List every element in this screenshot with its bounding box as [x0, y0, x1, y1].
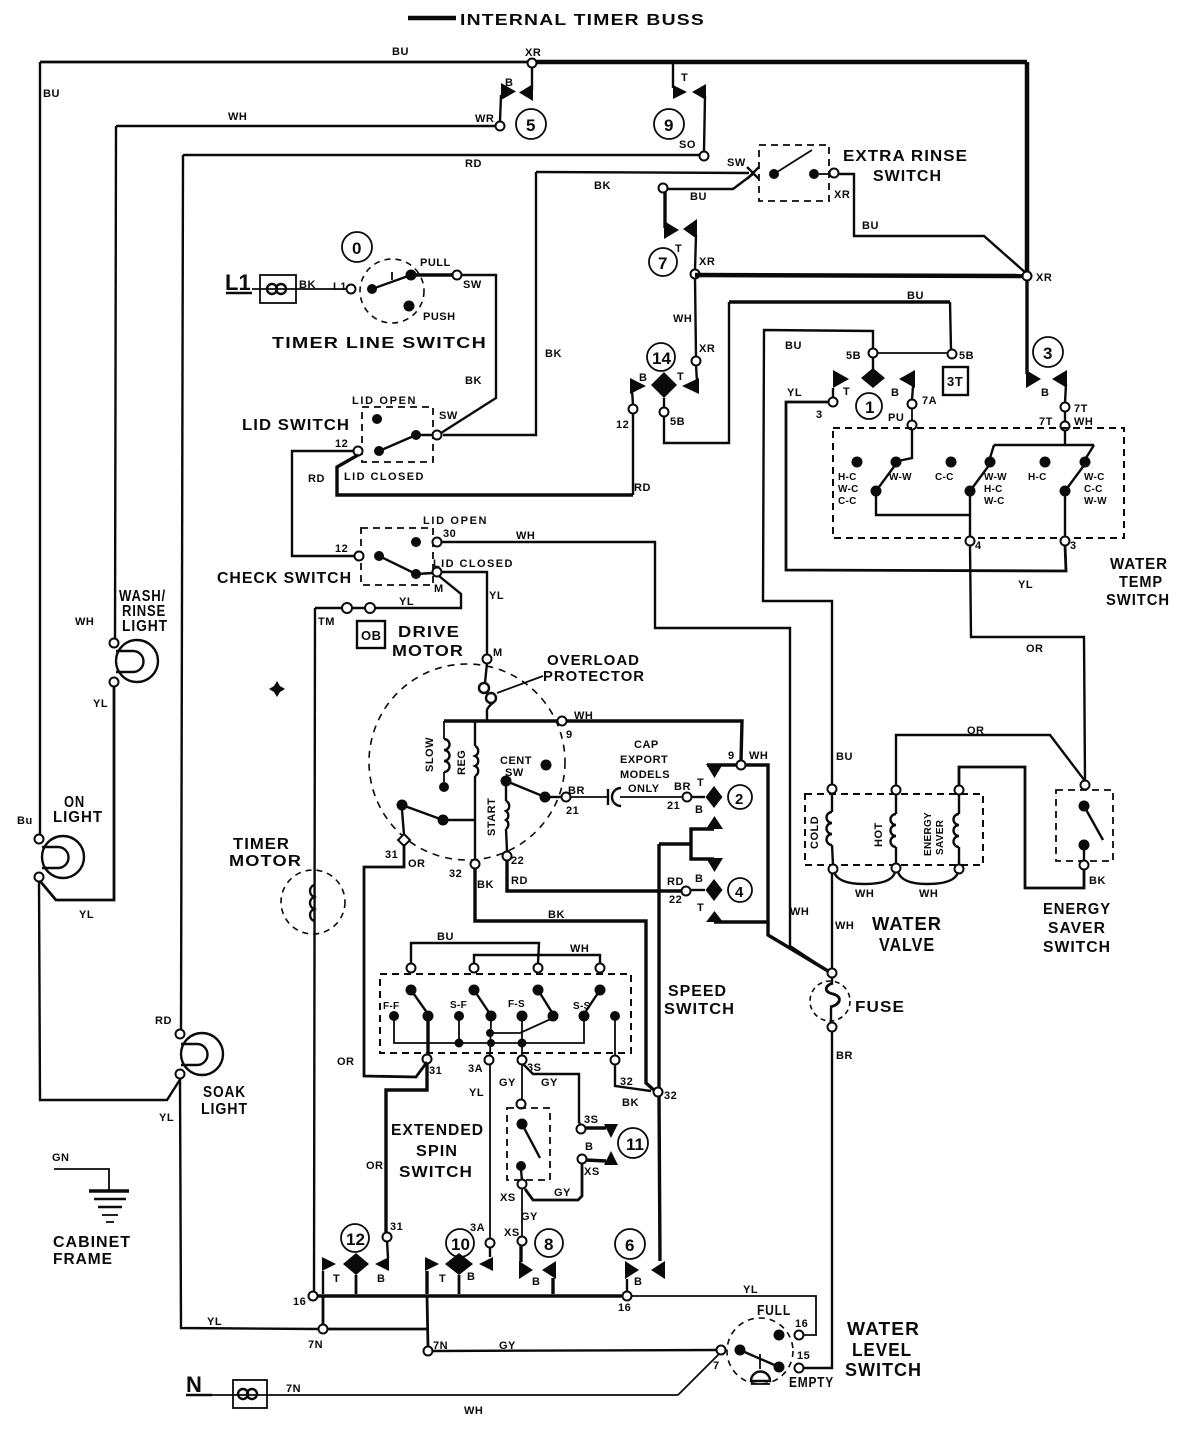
svg-text:RD: RD — [308, 473, 325, 485]
svg-text:BU: BU — [785, 340, 802, 352]
svg-text:WATER: WATER — [1110, 556, 1168, 573]
svg-text:HOT: HOT — [873, 822, 885, 847]
svg-text:TIMER: TIMER — [233, 836, 290, 853]
svg-text:CHECK SWITCH: CHECK SWITCH — [217, 570, 352, 587]
plug connector N — [233, 1380, 267, 1408]
node 32 speed — [611, 1056, 620, 1065]
svg-text:OR: OR — [366, 1160, 384, 1172]
svg-text:T: T — [677, 371, 684, 383]
svg-text:5: 5 — [526, 116, 535, 135]
svg-text:RD: RD — [667, 876, 684, 888]
wire timer motor line — [314, 608, 315, 1294]
svg-text:YL: YL — [399, 596, 414, 608]
wire BK branch to link — [659, 842, 691, 845]
svg-text:4: 4 — [975, 540, 982, 552]
svg-text:SWITCH: SWITCH — [845, 1360, 922, 1380]
svg-text:2: 2 — [735, 791, 743, 808]
svg-text:BK: BK — [465, 375, 482, 387]
svg-text:TIMER LINE SWITCH: TIMER LINE SWITCH — [272, 335, 487, 352]
speed switch pole terminals — [407, 964, 605, 973]
svg-text:EXPORT: EXPORT — [620, 754, 668, 766]
svg-text:MOTOR: MOTOR — [229, 853, 302, 870]
svg-text:B: B — [639, 372, 647, 384]
svg-text:Bu: Bu — [17, 815, 33, 827]
svg-text:YL: YL — [743, 1284, 758, 1296]
wire bottom bus — [314, 1294, 627, 1297]
svg-text:SPIN: SPIN — [416, 1143, 458, 1160]
svg-text:22: 22 — [511, 855, 524, 867]
node 7A — [908, 400, 917, 409]
svg-text:XR: XR — [699, 343, 715, 355]
svg-text:8: 8 — [544, 1235, 553, 1254]
wire BU outer left vertical — [39, 62, 41, 839]
svg-text:RD: RD — [465, 158, 482, 170]
wire BU bus to 5B right — [950, 302, 951, 350]
svg-text:BR: BR — [836, 1050, 853, 1062]
svg-text:9: 9 — [664, 116, 673, 135]
svg-text:BK: BK — [545, 348, 562, 360]
svg-text:FRAME: FRAME — [53, 1251, 113, 1268]
wire OR run — [364, 844, 427, 1077]
svg-text:5B: 5B — [670, 416, 685, 428]
wire WH speed switch — [474, 955, 600, 964]
title WATER LEVEL SWITCH — [845, 1319, 922, 1380]
svg-text:WH: WH — [574, 710, 593, 722]
svg-text:PUSH: PUSH — [423, 311, 456, 323]
svg-text:CAP: CAP — [634, 739, 659, 751]
svg-text:EMPTY: EMPTY — [789, 1374, 834, 1391]
svg-text:WATER: WATER — [872, 914, 942, 934]
wash rinse light — [110, 639, 159, 687]
water temp switch box — [833, 428, 1124, 538]
timer contact 6 — [615, 1229, 665, 1292]
svg-text:3A: 3A — [470, 1222, 485, 1234]
svg-text:WH: WH — [749, 750, 768, 762]
svg-text:LID OPEN: LID OPEN — [423, 515, 487, 527]
water temp pole B — [946, 457, 996, 538]
svg-text:LID CLOSED: LID CLOSED — [344, 471, 424, 483]
svg-text:W-W: W-W — [984, 472, 1007, 483]
node 4 — [966, 537, 975, 546]
svg-text:BK: BK — [622, 1097, 639, 1109]
svg-text:YL: YL — [159, 1112, 174, 1124]
reg winding — [456, 721, 478, 864]
svg-text:32: 32 — [449, 868, 462, 880]
svg-text:31: 31 — [429, 1065, 442, 1077]
wire 32 speed to BK — [615, 1064, 651, 1091]
svg-text:BK: BK — [594, 180, 611, 192]
wire internal timer buss top right — [530, 60, 1027, 65]
wire 31 node to contact 12 — [387, 1241, 388, 1258]
svg-text:B: B — [695, 804, 703, 816]
svg-text:SPEED: SPEED — [668, 983, 727, 1000]
svg-text:DRIVE: DRIVE — [398, 624, 460, 641]
svg-text:XR: XR — [699, 256, 715, 268]
svg-text:3: 3 — [1043, 344, 1052, 363]
node 21 contact2 — [683, 793, 692, 802]
node BU valve — [828, 785, 837, 794]
svg-text:EXTENDED: EXTENDED — [391, 1122, 484, 1139]
svg-text:YL: YL — [79, 909, 94, 921]
water temp feed bus — [994, 444, 1094, 446]
timer contact 3 — [1026, 280, 1067, 403]
svg-text:C-C: C-C — [935, 472, 954, 483]
svg-text:W-C: W-C — [838, 484, 859, 495]
svg-text:7: 7 — [658, 254, 667, 273]
svg-text:BU: BU — [437, 931, 454, 943]
svg-text:0: 0 — [352, 239, 361, 258]
svg-text:31: 31 — [390, 1221, 403, 1233]
svg-text:BK: BK — [548, 909, 565, 921]
wire OR hot to energy saver switch — [896, 735, 1085, 786]
svg-text:GY: GY — [499, 1077, 516, 1089]
svg-text:GY: GY — [499, 1340, 516, 1352]
wire bus to 7N — [322, 1296, 325, 1329]
node BU — [659, 184, 668, 193]
svg-text:YL: YL — [207, 1316, 222, 1328]
terminal box 3T — [943, 367, 968, 395]
svg-text:15: 15 — [797, 1350, 810, 1362]
lid switch — [354, 407, 442, 462]
svg-text:XS: XS — [504, 1227, 520, 1239]
node 3 water temp — [1061, 537, 1070, 546]
svg-text:B: B — [467, 1271, 475, 1283]
svg-text:SO: SO — [679, 139, 696, 151]
svg-text:7A: 7A — [922, 395, 937, 407]
svg-text:BK: BK — [1089, 875, 1106, 887]
title OVERLOAD PROTECTOR — [543, 652, 645, 685]
wire 7N link — [327, 1328, 427, 1331]
node 7T upper — [1061, 403, 1070, 412]
svg-text:16: 16 — [795, 1318, 808, 1330]
svg-text:T: T — [675, 243, 682, 255]
svg-text:B: B — [1041, 387, 1049, 399]
wire GY ext spin to contact 11 — [525, 1163, 582, 1200]
svg-text:XR: XR — [1036, 272, 1052, 284]
svg-text:GY: GY — [521, 1211, 538, 1223]
wire BK right vertical — [443, 172, 536, 435]
svg-text:RD: RD — [634, 482, 651, 494]
svg-text:3T: 3T — [947, 374, 963, 389]
svg-text:H-C: H-C — [984, 484, 1003, 495]
svg-text:BK: BK — [477, 879, 494, 891]
wire OR water temp 4 to energy saver — [970, 545, 1085, 781]
svg-text:31: 31 — [385, 849, 398, 861]
water temp pole A — [852, 429, 971, 515]
star mark — [269, 681, 285, 697]
node hot bottom — [892, 864, 901, 873]
timer contact 5 — [500, 67, 546, 139]
svg-text:EXTRA RINSE: EXTRA RINSE — [843, 148, 968, 165]
svg-text:BU: BU — [392, 46, 409, 58]
svg-text:SAVER: SAVER — [1048, 920, 1106, 937]
wire WH diagonal to pivot 7 — [678, 1354, 719, 1395]
node XR contact 14 — [692, 357, 701, 366]
svg-text:W-C: W-C — [1084, 472, 1105, 483]
svg-text:F-S: F-S — [508, 999, 525, 1010]
svg-text:W-C: W-C — [984, 496, 1005, 507]
wire XR extra rinse to bus — [838, 174, 1027, 274]
wire BR empty to fuse — [803, 1031, 832, 1368]
wire BK down to contact 6 — [657, 844, 660, 1088]
node 31 motor — [398, 834, 410, 846]
node 3S speed — [518, 1056, 527, 1065]
wire YL 3A to contact 10 — [489, 1064, 491, 1239]
svg-text:OR: OR — [967, 725, 985, 737]
speed switch poles — [406, 985, 606, 1015]
svg-text:22: 22 — [669, 894, 682, 906]
svg-text:21: 21 — [566, 805, 579, 817]
timer contact 12 — [322, 1224, 389, 1294]
soak light — [176, 1030, 224, 1079]
slow winding — [424, 721, 450, 792]
wire contact 2-4 bracket — [714, 765, 768, 922]
wire 7A to PU — [911, 408, 913, 421]
svg-text:B: B — [585, 1141, 593, 1153]
timer contact 14 — [630, 343, 699, 408]
svg-text:LIGHT: LIGHT — [122, 618, 168, 635]
timer contact 7 — [649, 192, 697, 276]
node 3A lower — [486, 1239, 495, 1248]
svg-text:REG: REG — [456, 750, 468, 775]
svg-text:WR: WR — [475, 113, 494, 125]
node PU — [908, 421, 917, 430]
node 16 left — [309, 1292, 318, 1301]
svg-text:RD: RD — [511, 875, 528, 887]
speed switch contact dots — [389, 1011, 620, 1022]
wire BU speed switch — [411, 943, 539, 964]
svg-text:MOTOR: MOTOR — [392, 643, 464, 660]
extended spin switch — [507, 1100, 550, 1189]
hot valve coil — [873, 786, 901, 865]
svg-text:ENERGY: ENERGY — [923, 812, 934, 856]
svg-text:YL: YL — [787, 387, 802, 399]
svg-text:N: N — [186, 1372, 202, 1397]
svg-text:S-S: S-S — [573, 1001, 591, 1012]
wire WH cold to fuse — [831, 873, 833, 969]
water temp contact labels — [838, 472, 1107, 507]
svg-text:T: T — [333, 1273, 340, 1285]
svg-text:B: B — [634, 1276, 642, 1288]
svg-text:7: 7 — [713, 1360, 720, 1372]
svg-text:LIGHT: LIGHT — [201, 1101, 248, 1118]
wire contact10 leg to 7N2 — [427, 1296, 428, 1347]
timer contact 2 — [691, 764, 752, 829]
timer contact 10 — [425, 1229, 493, 1294]
timer line switch — [347, 259, 462, 323]
wire N lead — [212, 1394, 678, 1396]
svg-text:W-W: W-W — [1084, 496, 1107, 507]
svg-text:21: 21 — [667, 800, 680, 812]
svg-text:7N: 7N — [286, 1383, 301, 1395]
svg-text:YL: YL — [469, 1087, 484, 1099]
label CAP EXPORT MODELS ONLY — [620, 739, 670, 795]
svg-text:C-C: C-C — [838, 496, 857, 507]
wire WH left vertical — [115, 126, 116, 643]
wire WH valve bottoms — [834, 872, 895, 884]
svg-text:5B: 5B — [959, 350, 974, 362]
node XR contact 7 — [691, 270, 700, 279]
wire RD thick to contact 14 — [337, 455, 633, 495]
svg-text:GY: GY — [554, 1187, 571, 1199]
svg-text:H-C: H-C — [838, 472, 857, 483]
svg-text:16: 16 — [293, 1296, 306, 1308]
svg-text:WH: WH — [835, 920, 854, 932]
wire 5B to BU bus — [664, 302, 729, 443]
svg-text:OVERLOAD: OVERLOAD — [547, 652, 640, 669]
svg-text:CENT: CENT — [500, 755, 532, 767]
svg-text:WH: WH — [464, 1405, 483, 1417]
svg-text:WH: WH — [570, 943, 589, 955]
svg-text:T: T — [439, 1273, 446, 1285]
svg-text:LID CLOSED: LID CLOSED — [433, 558, 513, 570]
node XR right — [1023, 272, 1032, 281]
wire YL bus to water level full — [631, 1296, 816, 1335]
svg-text:ONLY: ONLY — [628, 783, 660, 795]
node 32 motor — [471, 860, 480, 869]
svg-text:12: 12 — [335, 438, 348, 450]
svg-text:W-W: W-W — [889, 472, 912, 483]
svg-text:16: 16 — [618, 1302, 631, 1314]
node 32 lower — [654, 1088, 663, 1097]
svg-text:B: B — [891, 387, 899, 399]
node 3 — [829, 398, 838, 407]
title DRIVE MOTOR — [392, 624, 464, 660]
svg-text:SLOW: SLOW — [424, 737, 436, 772]
svg-text:WH: WH — [1074, 416, 1093, 428]
svg-text:30: 30 — [443, 528, 456, 540]
svg-text:BU: BU — [690, 191, 707, 203]
wire YL wash light down — [40, 686, 114, 900]
svg-text:T: T — [697, 777, 704, 789]
wire 5B jumper — [877, 352, 948, 354]
timer contact 1 — [833, 358, 915, 419]
node 9 contact2 — [737, 761, 746, 770]
fuse — [810, 969, 850, 1032]
svg-text:T: T — [697, 902, 704, 914]
svg-text:LID SWITCH: LID SWITCH — [242, 417, 350, 434]
svg-text:B: B — [377, 1273, 385, 1285]
pointer line overload — [497, 676, 543, 693]
svg-text:BR: BR — [674, 781, 691, 793]
svg-text:12: 12 — [616, 419, 629, 431]
node WR — [496, 122, 505, 131]
svg-text:1: 1 — [865, 398, 874, 417]
svg-text:OR: OR — [1026, 643, 1044, 655]
connector TM-M — [342, 603, 375, 613]
cold valve coil — [809, 793, 833, 865]
wire 7T into water temp switch — [1064, 411, 1066, 422]
water valve box — [805, 794, 983, 865]
cent sw — [500, 755, 562, 803]
svg-text:TEMP: TEMP — [1119, 574, 1163, 591]
wire 3S to contact 11 — [523, 1064, 581, 1126]
ground cabinet frame — [52, 1152, 129, 1222]
svg-text:SW: SW — [439, 410, 458, 422]
svg-text:WH: WH — [673, 313, 692, 325]
svg-text:CABINET: CABINET — [53, 1234, 131, 1251]
svg-text:SWITCH: SWITCH — [399, 1164, 473, 1181]
svg-text:M: M — [434, 583, 444, 595]
wire 32 to contact 6 — [659, 1096, 660, 1261]
node 21 motor — [562, 793, 571, 802]
svg-text:RD: RD — [155, 1015, 172, 1027]
title ENERGY SAVER SWITCH — [1043, 901, 1111, 956]
svg-text:WATER: WATER — [847, 1319, 920, 1339]
energy saver valve coil — [923, 786, 964, 866]
node 5B — [660, 408, 669, 417]
svg-text:5B: 5B — [846, 350, 861, 362]
svg-text:YL: YL — [93, 698, 108, 710]
svg-text:LID OPEN: LID OPEN — [352, 395, 416, 407]
on light — [35, 835, 85, 882]
start winding — [486, 786, 509, 851]
timer contact 11 — [577, 1124, 649, 1165]
svg-text:BK: BK — [299, 279, 316, 291]
svg-text:SWITCH: SWITCH — [1106, 592, 1170, 609]
node 22 contact4 — [682, 887, 691, 896]
svg-text:BR: BR — [568, 785, 585, 797]
title WATER VALVE — [872, 914, 942, 955]
speed switch internal wiring — [394, 1016, 615, 1056]
svg-text:SWITCH: SWITCH — [664, 1001, 735, 1018]
wire L1 lead — [252, 288, 351, 290]
energy saver switch — [1056, 781, 1113, 870]
node XS contact 8 — [518, 1237, 527, 1246]
node 5B left — [869, 349, 878, 358]
node 31 speed — [423, 1055, 432, 1064]
svg-text:OB: OB — [361, 628, 382, 643]
svg-text:XR: XR — [834, 189, 850, 201]
wire XS down to contact 8 — [521, 1188, 523, 1237]
plug connector L1 — [260, 275, 296, 303]
wire 31 down to contact 12 — [386, 1063, 427, 1233]
svg-text:YL: YL — [489, 590, 504, 602]
wire M to TM yellow — [315, 576, 461, 608]
wire WH check switch to fuse — [441, 542, 828, 971]
wire BU to extra rinse SW — [668, 174, 753, 189]
wire internal timer buss mid — [695, 275, 1027, 276]
node 3A speed — [485, 1056, 494, 1065]
labels F-F S-F F-S S-S — [383, 999, 591, 1012]
svg-text:32: 32 — [664, 1090, 677, 1102]
wire 5B to YL corner — [763, 330, 873, 785]
title WATER TEMP SWITCH — [1106, 556, 1170, 609]
node M drive motor — [483, 655, 492, 664]
node SO — [700, 152, 709, 161]
wire 12 to contact 14 — [632, 413, 634, 495]
node 12 — [629, 405, 638, 414]
svg-text:T: T — [681, 72, 688, 84]
svg-text:3: 3 — [816, 409, 823, 421]
wire BK energy saver to valve coil — [959, 767, 1084, 888]
node 7T lower — [1061, 422, 1070, 431]
svg-text:BU: BU — [862, 220, 879, 232]
wire WH top — [116, 125, 496, 127]
svg-text:F-F: F-F — [383, 1001, 399, 1012]
water level switch — [717, 1318, 804, 1384]
extra rinse switch — [747, 145, 839, 201]
node 7N 2 — [424, 1347, 433, 1356]
wire RD to contact 4 — [507, 860, 681, 891]
svg-text:VALVE: VALVE — [879, 935, 935, 955]
drive motor dashed circle — [369, 664, 565, 860]
svg-text:7T: 7T — [1074, 403, 1088, 415]
svg-text:WH: WH — [919, 888, 938, 900]
svg-text:WH: WH — [855, 888, 874, 900]
wire WH motor bus — [444, 721, 742, 761]
svg-text:SWITCH: SWITCH — [873, 168, 942, 185]
